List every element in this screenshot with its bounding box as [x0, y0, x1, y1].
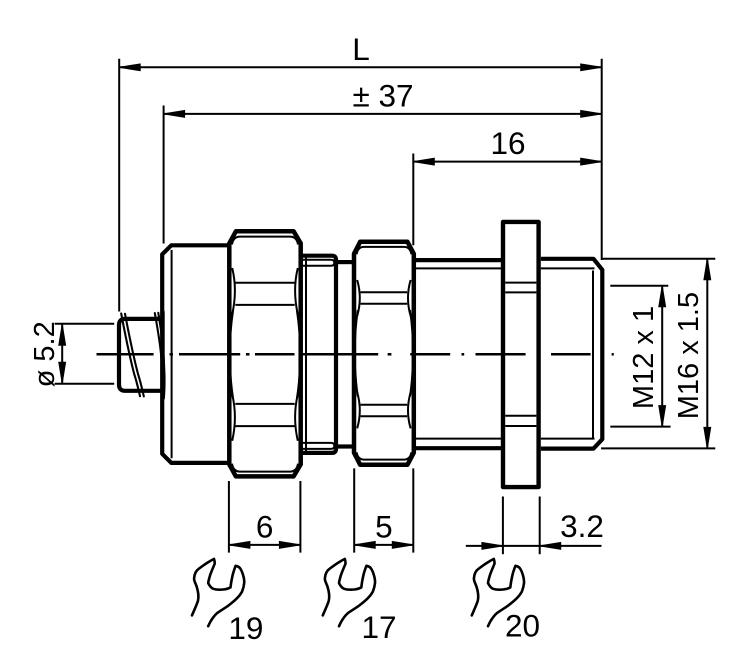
dimension line 16 [413, 158, 601, 165]
dimension line 6 [229, 542, 301, 549]
dimension L extension line left [118, 59, 120, 312]
cable break curves [121, 313, 164, 399]
nut N1 bottom inner line [232, 464, 298, 472]
wrench icon SW17 [323, 559, 375, 626]
dimension line M16 [704, 259, 711, 449]
threaded section A (between nut N2 and flange) [414, 260, 503, 448]
dimension line ±37 [164, 111, 602, 118]
cable (left, ø5.2 with break symbol) [119, 312, 163, 398]
dimension line 3.2 (arrows outside) [466, 543, 602, 550]
svg-text:6: 6 [256, 508, 274, 544]
dimension ±37 extension line left [163, 106, 165, 244]
svg-text:19: 19 [228, 610, 263, 646]
dimension 5 extension lines [354, 468, 413, 552]
svg-text:17: 17 [362, 609, 397, 645]
flange face lines [505, 283, 536, 426]
nut N1 middle face side arcs [230, 311, 301, 398]
thread minor lines B [541, 268, 595, 438]
svg-text:3.2: 3.2 [560, 508, 604, 544]
shared right extension line (L / ±37 / 16) [601, 59, 603, 260]
centerline (dash-dot axis) [97, 353, 614, 356]
dimension line M12 [659, 286, 666, 427]
svg-text:ø 5.2: ø 5.2 [29, 321, 61, 387]
svg-text:M16 x 1.5: M16 x 1.5 [673, 292, 705, 419]
dimension 6 extension lines [229, 481, 301, 553]
nut N2 middle face side arcs [355, 310, 413, 397]
spacer seam line at nut N1 [305, 257, 307, 453]
wrench icon SW19 [192, 559, 244, 626]
svg-text:5: 5 [375, 508, 393, 544]
threaded section B (M16 end) [541, 259, 603, 449]
dimension line L [119, 64, 602, 71]
nut N2 top inner line [357, 247, 412, 254]
svg-text:M12 x 1: M12 x 1 [628, 306, 660, 409]
wrench icon SW20 [472, 559, 524, 626]
hex nut N1 (SW19) silhouette [229, 231, 300, 476]
nut N1 lower face band [232, 394, 298, 440]
cap cylinder [162, 245, 230, 463]
dimension 16 extension line left [412, 154, 414, 246]
spacer groove lines [302, 260, 334, 449]
dimension line ø5.2 [59, 324, 66, 383]
thread B chamfer start line [592, 271, 594, 439]
spacer cylinder [302, 256, 336, 453]
dimension M12 extension lines [610, 286, 670, 427]
svg-text:± 37: ± 37 [352, 78, 413, 114]
svg-text:16: 16 [490, 125, 525, 161]
flange nut (3.2 wide, SW20) [503, 222, 539, 487]
dimension M16 extension lines [601, 259, 715, 449]
hex nut N2 (SW17) silhouette [354, 242, 414, 465]
svg-text:20: 20 [505, 608, 540, 644]
thread minor lines A [414, 268, 503, 438]
ring between spacer and nut N2 [338, 262, 353, 446]
dimension ø5.2 extension lines [55, 324, 115, 384]
nut N2 upper face band [357, 280, 410, 316]
nut N1 top inner line [232, 237, 298, 245]
svg-text:L: L [352, 31, 370, 67]
nut N2 lower face band [357, 392, 410, 428]
nut N2 bottom inner line [357, 452, 412, 459]
dimension 3.2 extension lines [503, 497, 540, 555]
cap chamfer inner line [171, 250, 173, 458]
nut N1 upper face band [232, 268, 298, 314]
dimension line 5 [354, 542, 413, 549]
